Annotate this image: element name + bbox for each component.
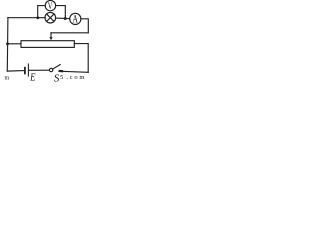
voltmeter V1 <box>45 0 55 11</box>
svg-text:V: V <box>48 2 53 12</box>
wire rheostat left <box>8 43 22 45</box>
battery E negative plate <box>24 68 26 74</box>
switch S lever <box>53 65 61 70</box>
rheostat R1 body <box>21 41 74 48</box>
wire top rail <box>8 17 45 19</box>
wire voltmeter right branch <box>56 6 66 19</box>
switch S pivot <box>49 68 52 71</box>
svg-text:E: E <box>29 73 36 83</box>
wire slider feed <box>51 32 88 34</box>
svg-text:m: m <box>5 75 10 81</box>
rheostat slider arrow <box>49 33 52 41</box>
wire lamp to ammeter <box>56 17 70 20</box>
svg-text:5.com: 5.com <box>60 74 84 81</box>
battery E positive plate <box>27 64 29 76</box>
wire bottom left <box>7 70 24 73</box>
lamp L1 <box>45 12 56 23</box>
wire voltmeter left branch <box>38 6 46 18</box>
svg-text:A: A <box>72 14 78 26</box>
wire left vertical <box>6 18 9 71</box>
junction node c <box>6 42 9 45</box>
ammeter A1 <box>70 13 81 25</box>
wire bottom right <box>62 71 88 72</box>
wire rheostat right to bottom right corner <box>74 44 88 73</box>
wire battery to switch <box>29 69 50 71</box>
junction node b <box>64 17 67 20</box>
junction node a <box>36 16 39 19</box>
wire ammeter to right edge top <box>81 19 88 33</box>
switch S contact <box>60 70 63 72</box>
